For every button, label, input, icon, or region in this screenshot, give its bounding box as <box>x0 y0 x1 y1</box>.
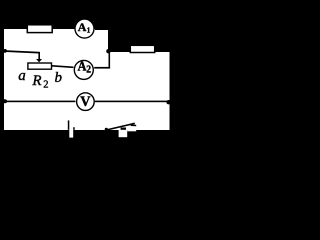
svg-text:2: 2 <box>86 64 91 75</box>
switch pivot dot <box>105 128 108 131</box>
resistor R1 <box>27 25 52 33</box>
white circuit interior <box>4 29 169 130</box>
svg-text:A: A <box>78 20 87 34</box>
battery short electrode <box>73 127 75 130</box>
background (outer black margin) <box>0 0 178 160</box>
node J1 junction dot <box>106 49 110 53</box>
resistor R (top right) <box>130 45 154 52</box>
node J2 junction dot on left wire (rheostat feed) <box>3 49 7 53</box>
rheostat R2 box <box>28 63 52 69</box>
ammeter A1 <box>75 19 94 38</box>
battery gap (white notch) <box>69 130 73 138</box>
svg-text:V: V <box>80 94 91 110</box>
svg-text:2: 2 <box>43 80 48 91</box>
wire V row left <box>4 101 75 103</box>
voltmeter V <box>77 93 95 111</box>
wire V row right <box>95 101 170 103</box>
svg-text:a: a <box>18 68 26 84</box>
switch gap right (wire break to contact) <box>127 130 136 132</box>
wire A2 to corner under J1 <box>94 67 110 69</box>
wire J1 down to A2 <box>109 51 111 68</box>
svg-text:R: R <box>31 73 41 89</box>
switch gap (white notch) <box>119 130 128 137</box>
battery long electrode <box>68 120 70 129</box>
switch lever tip <box>131 124 137 126</box>
node J3 junction dot left <box>3 99 7 103</box>
wire left wire to wiper <box>4 51 39 53</box>
wiper arrowhead <box>36 59 42 62</box>
svg-text:b: b <box>55 70 63 86</box>
ammeter A2 <box>74 60 93 79</box>
wire wiper stem <box>38 52 40 59</box>
node J4 junction dot right <box>166 100 170 104</box>
switch lever <box>106 123 134 130</box>
switch fixed contact <box>121 128 126 130</box>
svg-text:1: 1 <box>87 26 91 34</box>
wire R2 box to A2 <box>52 66 74 68</box>
